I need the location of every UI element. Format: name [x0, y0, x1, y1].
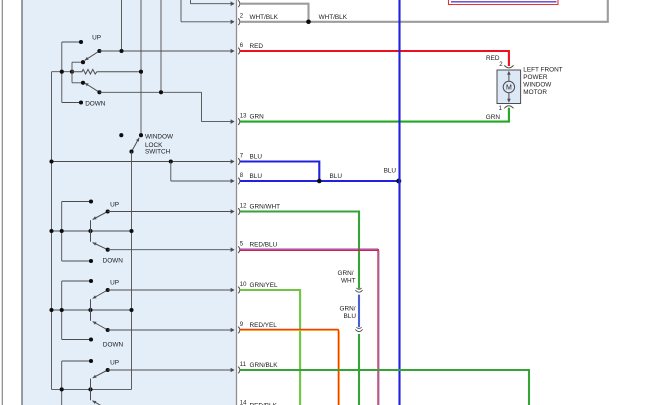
svg-text:DOWN: DOWN — [103, 342, 124, 349]
svg-text:13: 13 — [240, 114, 247, 120]
svg-text:RED/YEL: RED/YEL — [250, 322, 278, 329]
svg-text:UP: UP — [92, 35, 101, 42]
svg-text:UP: UP — [110, 360, 119, 367]
svg-text:RED: RED — [486, 55, 500, 62]
svg-text:BLU: BLU — [344, 313, 357, 320]
svg-text:GRN/: GRN/ — [340, 306, 356, 313]
svg-text:RED/BLU: RED/BLU — [250, 242, 278, 249]
svg-text:DOWN: DOWN — [85, 101, 106, 108]
svg-text:BLU: BLU — [250, 154, 263, 161]
svg-text:WHT/BLK: WHT/BLK — [319, 14, 348, 21]
svg-text:GRN/: GRN/ — [338, 270, 354, 277]
svg-text:RED: RED — [250, 43, 264, 50]
svg-text:WHT/BLK: WHT/BLK — [250, 14, 279, 21]
svg-text:POWER: POWER — [523, 74, 548, 81]
svg-text:BLU: BLU — [384, 167, 397, 174]
svg-text:LEFT FRONT: LEFT FRONT — [523, 66, 562, 73]
svg-text:11: 11 — [240, 362, 247, 368]
svg-text:DOWN: DOWN — [103, 258, 124, 265]
svg-text:BLU: BLU — [330, 173, 343, 180]
svg-text:GRN: GRN — [486, 114, 501, 121]
svg-text:GRN/WHT: GRN/WHT — [250, 204, 281, 211]
svg-text:UP: UP — [110, 280, 119, 287]
svg-text:SWITCH: SWITCH — [145, 149, 171, 156]
svg-text:WINDOW: WINDOW — [523, 81, 552, 88]
svg-text:GRN/YEL: GRN/YEL — [250, 282, 279, 289]
svg-text:GRN/BLK: GRN/BLK — [250, 362, 279, 369]
svg-text:MOTOR: MOTOR — [523, 89, 547, 96]
svg-text:12: 12 — [240, 203, 247, 209]
svg-text:UP: UP — [110, 202, 119, 209]
svg-text:10: 10 — [240, 282, 247, 288]
svg-text:M: M — [506, 85, 512, 92]
svg-text:GRN: GRN — [250, 114, 265, 121]
svg-text:WINDOW: WINDOW — [145, 134, 174, 141]
svg-text:WHT: WHT — [341, 277, 356, 284]
svg-text:BLU: BLU — [250, 173, 263, 180]
svg-text:14: 14 — [240, 401, 247, 405]
